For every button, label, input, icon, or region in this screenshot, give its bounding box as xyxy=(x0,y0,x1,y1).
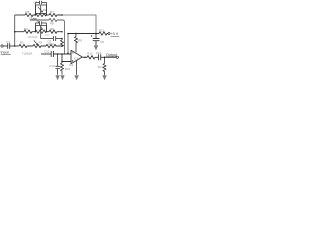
svg-text:IC1: IC1 xyxy=(69,63,74,67)
svg-text:C7: C7 xyxy=(34,0,38,4)
svg-text:R9: R9 xyxy=(78,39,82,43)
svg-text:R10: R10 xyxy=(49,42,55,46)
svg-text:P2: P2 xyxy=(43,28,47,32)
svg-text:R12: R12 xyxy=(99,28,105,32)
svg-text:TL062A: TL062A xyxy=(22,51,32,55)
svg-text:C9: C9 xyxy=(100,40,104,44)
svg-text:R5: R5 xyxy=(26,10,30,14)
svg-text:R9: R9 xyxy=(50,27,54,31)
svg-text:R1: R1 xyxy=(20,41,24,45)
svg-text:Input: Input xyxy=(1,50,9,54)
svg-text:C8: C8 xyxy=(36,20,40,24)
svg-text:R2: R2 xyxy=(39,41,43,45)
svg-text:IC1: IC1 xyxy=(74,57,79,61)
svg-text:C10: C10 xyxy=(49,64,55,68)
svg-text:+9 V: +9 V xyxy=(111,32,119,36)
svg-text:R12: R12 xyxy=(87,52,93,56)
svg-text:C1: C1 xyxy=(6,40,10,44)
svg-text:R6: R6 xyxy=(24,27,28,31)
svg-text:C12: C12 xyxy=(96,51,102,55)
svg-text:R11: R11 xyxy=(65,67,70,71)
svg-text:C11: C11 xyxy=(44,49,49,53)
svg-text:R7: R7 xyxy=(50,10,54,14)
svg-text:P1: P1 xyxy=(43,8,47,12)
svg-text:R8: R8 xyxy=(50,22,54,26)
svg-text:10n: 10n xyxy=(45,33,50,37)
svg-text:R13: R13 xyxy=(98,65,104,69)
svg-text:1N4148: 1N4148 xyxy=(28,35,38,39)
